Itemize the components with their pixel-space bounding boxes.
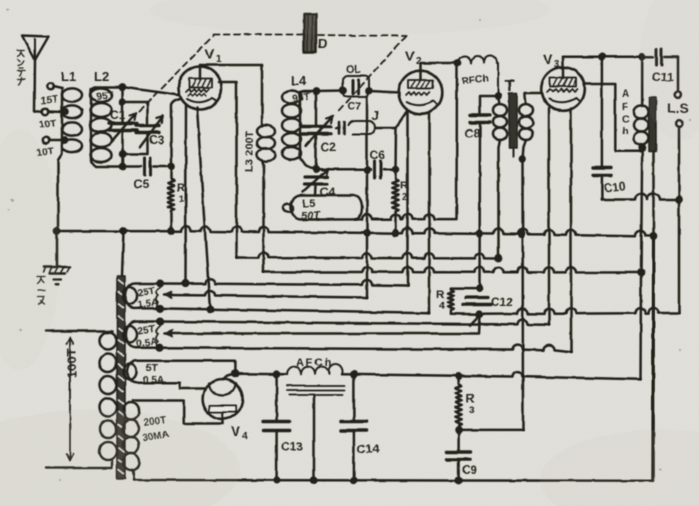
label 50T bbox=[301, 210, 320, 222]
label C11 bbox=[652, 70, 674, 84]
svg-text:F: F bbox=[622, 102, 628, 113]
resistor R4 bbox=[448, 288, 480, 314]
node R4 bottom bbox=[477, 312, 482, 317]
svg-text:15T: 15T bbox=[40, 94, 58, 107]
label T bbox=[505, 78, 515, 95]
svg-text:C3: C3 bbox=[149, 133, 165, 147]
grid wire L2 top to V1 bbox=[123, 87, 179, 95]
loudspeaker terminal 1 bbox=[675, 91, 682, 98]
V1 heater wire 1 bbox=[184, 105, 187, 284]
capacitor C13 bbox=[264, 374, 290, 480]
resistor R1 bbox=[168, 167, 174, 232]
svg-text:1: 1 bbox=[216, 54, 222, 65]
wire node to C5 bbox=[123, 165, 142, 168]
heater bus 3 bbox=[160, 308, 430, 313]
label R1 bbox=[177, 182, 185, 204]
transformer T primary bbox=[493, 96, 507, 259]
coil L4 bbox=[282, 91, 314, 170]
capacitor C14 bbox=[341, 374, 367, 480]
coil L1 bbox=[58, 88, 82, 231]
variable capacitor C3 bbox=[136, 126, 159, 133]
capacitor C11 bbox=[642, 49, 678, 91]
capacitor C9 bbox=[447, 430, 470, 481]
svg-text:L3 200T: L3 200T bbox=[244, 131, 256, 172]
power transformer core bbox=[117, 276, 125, 479]
node C3 bottom rail bbox=[120, 152, 125, 157]
svg-text:L5: L5 bbox=[302, 198, 315, 210]
bias branch to C12 bbox=[470, 315, 480, 325]
svg-text:R: R bbox=[436, 289, 444, 301]
wire C4 to L5 bbox=[314, 185, 317, 196]
wire J down to R2 bbox=[394, 128, 397, 170]
oscillator unit OL box bbox=[343, 76, 369, 97]
label R2 bbox=[400, 180, 408, 202]
svg-text:10T: 10T bbox=[38, 118, 56, 131]
label 0.5A (rect) bbox=[143, 375, 164, 386]
heater winding 25T 1.5A bbox=[123, 283, 160, 308]
rectifier tube V4 bbox=[203, 374, 243, 424]
capacitor C6 bbox=[375, 161, 381, 178]
wire L5 return bus bbox=[318, 64, 457, 220]
C2 arrow bbox=[306, 116, 333, 146]
svg-text:4: 4 bbox=[242, 431, 248, 442]
node bias lower / winding bbox=[157, 345, 163, 351]
label 25T bbox=[137, 286, 156, 299]
label R3 bbox=[466, 391, 475, 416]
node R2 top bbox=[393, 167, 398, 172]
svg-text:5T: 5T bbox=[146, 363, 158, 374]
svg-text:C4: C4 bbox=[320, 185, 336, 199]
svg-text:R: R bbox=[466, 391, 475, 405]
node L4 bottom bbox=[313, 167, 318, 172]
svg-text:3: 3 bbox=[554, 59, 560, 70]
node earth bus / R2 bbox=[393, 231, 398, 236]
wire node to OL unit bbox=[316, 89, 343, 92]
node C3 top rail bbox=[120, 100, 125, 105]
label 10T bbox=[38, 118, 56, 131]
node V2 plate / RFC / oscillator line bbox=[455, 60, 460, 65]
svg-text:100T: 100T bbox=[64, 348, 79, 378]
node bias bus / winding bbox=[157, 319, 163, 325]
resistor R3 bbox=[456, 376, 462, 430]
label C1 bbox=[110, 108, 126, 122]
node heater bus 1 / winding bbox=[157, 281, 163, 287]
svg-text:C7: C7 bbox=[347, 101, 361, 113]
label 5T bbox=[146, 363, 158, 374]
svg-text:J: J bbox=[372, 109, 379, 123]
node L4 top bbox=[313, 88, 318, 93]
svg-text:C10: C10 bbox=[603, 179, 627, 195]
node B+ bus / T primary bbox=[496, 256, 501, 261]
resistor R2 bbox=[392, 169, 398, 234]
wire C5 to R1 node bbox=[154, 165, 172, 168]
node earth bus / C8 line bbox=[477, 231, 482, 236]
label V2 bbox=[405, 48, 422, 67]
C3 arrow bbox=[140, 116, 163, 147]
coil L2 bbox=[91, 87, 123, 167]
svg-text:D: D bbox=[318, 36, 327, 51]
rectifier winding 5T 0.5A bbox=[124, 361, 161, 383]
plate supply bus bbox=[264, 267, 642, 273]
wire C6 row bbox=[316, 168, 371, 171]
label C5 bbox=[134, 177, 150, 191]
node heater bus 3 / winding bbox=[157, 306, 163, 312]
svg-text:V: V bbox=[205, 46, 215, 62]
label L1 bbox=[61, 69, 76, 84]
heater bus 1 bbox=[160, 279, 408, 286]
C4 arrow bbox=[303, 169, 328, 192]
node R3 bottom bbox=[456, 427, 461, 432]
svg-text:AFCh: AFCh bbox=[296, 357, 333, 369]
label C4 bbox=[320, 185, 336, 199]
HT winding 200T 30mA bbox=[123, 401, 223, 481]
label 95T bbox=[96, 90, 115, 103]
wire LS down right edge bbox=[678, 127, 681, 313]
antenna label (katakana) bbox=[17, 50, 25, 85]
bottom bus riser to earth bus bbox=[653, 236, 654, 481]
vacuum tube V3 bbox=[541, 57, 585, 111]
label 25T (bias) bbox=[137, 324, 156, 337]
more sections appended below bbox=[282, 48, 689, 481]
svg-text:C8: C8 bbox=[465, 126, 481, 140]
node earth bus / R1 bbox=[168, 228, 173, 233]
node OL left bbox=[340, 88, 345, 93]
label C3 bbox=[149, 133, 165, 147]
node heater bus 1 / V1 bbox=[183, 281, 189, 287]
node C13 bbox=[274, 372, 279, 377]
ground label (katakana) bbox=[37, 277, 45, 305]
C1 arrow bbox=[111, 113, 136, 142]
label L2 bbox=[94, 69, 109, 84]
svg-text:C13: C13 bbox=[281, 440, 303, 454]
wire node down to C2 bbox=[315, 91, 318, 125]
V2 heater wire 1 bbox=[406, 113, 409, 286]
grid condenser J bbox=[336, 121, 396, 134]
label C9 bbox=[462, 463, 478, 477]
svg-text:V: V bbox=[543, 51, 553, 67]
label R4 bbox=[436, 289, 445, 312]
choke frame wire bbox=[313, 395, 316, 481]
svg-text:A: A bbox=[622, 89, 629, 100]
V2 plate wire bbox=[421, 63, 459, 71]
svg-text:C: C bbox=[622, 114, 629, 125]
terminal 3 of L1 bbox=[43, 137, 68, 143]
filter choke AFCh bbox=[287, 364, 345, 394]
label C6 bbox=[370, 148, 386, 162]
heater bus 2 (centre tap) bbox=[164, 290, 367, 297]
label 200T bbox=[143, 415, 167, 429]
svg-text:C9: C9 bbox=[462, 463, 478, 477]
label 15T bbox=[40, 94, 58, 107]
node plate bus / output choke line bbox=[638, 270, 643, 275]
label C14 bbox=[357, 442, 379, 456]
label 10T (second) bbox=[36, 146, 54, 159]
label C13 bbox=[281, 440, 303, 454]
label AFCh (filter) bbox=[296, 357, 333, 369]
wire node to C8 bbox=[480, 96, 498, 113]
svg-text:0.5A: 0.5A bbox=[143, 375, 164, 386]
vacuum tube V2 bbox=[399, 71, 443, 115]
node OL right bbox=[366, 88, 371, 93]
node earth bus / L1 bbox=[54, 228, 59, 233]
coil L5 bbox=[283, 196, 362, 220]
label C12 bbox=[491, 295, 513, 309]
node choke bottom bbox=[640, 145, 645, 150]
svg-text:L1: L1 bbox=[61, 69, 76, 84]
RF choke RFCh bbox=[456, 56, 498, 96]
node plate line / C10 bbox=[599, 54, 604, 59]
loudspeaker terminal 2 bbox=[676, 120, 683, 127]
label C2 bbox=[321, 140, 337, 154]
bottom return bus bbox=[134, 479, 653, 482]
label L.S bbox=[667, 100, 689, 116]
dashed gang line horizontal through D bbox=[213, 35, 406, 37]
wire 5T top to rectifier output node bbox=[158, 361, 235, 374]
node on LS line bbox=[676, 197, 681, 202]
label C10 bbox=[603, 179, 627, 195]
dashed gang line D to C1 bbox=[139, 36, 213, 111]
label C8 bbox=[465, 126, 481, 140]
svg-text:V: V bbox=[405, 48, 415, 64]
V3 plate wire bbox=[563, 56, 642, 59]
node R4 top bbox=[477, 286, 482, 291]
capacitor C10 bbox=[593, 57, 611, 200]
antenna bbox=[22, 36, 49, 112]
label 30MA bbox=[142, 429, 170, 444]
svg-text:L4: L4 bbox=[291, 73, 307, 88]
transformer T secondary bbox=[519, 93, 542, 159]
wire choke bottom down to B+ bbox=[641, 147, 643, 379]
primary winding 100T bbox=[46, 331, 117, 468]
svg-text:C14: C14 bbox=[357, 442, 379, 456]
node RFC output bbox=[495, 93, 500, 98]
node bottom bus / C9 bbox=[456, 478, 461, 483]
V1 screen wire down to B+ bus bbox=[219, 82, 237, 258]
bias tap bus bbox=[160, 319, 549, 324]
bias lower wire bbox=[160, 345, 571, 353]
label 100T (vertical) bbox=[64, 348, 79, 378]
wire C8 down grounded line bbox=[478, 124, 481, 288]
bias winding 25T 0.5A bbox=[123, 322, 160, 348]
node earth bus / grid-return line bbox=[519, 232, 524, 237]
svg-text:C12: C12 bbox=[491, 295, 513, 309]
wire 5T bottom to V4 filament bbox=[160, 383, 206, 389]
svg-text:h: h bbox=[622, 126, 628, 137]
ground symbol bbox=[43, 231, 70, 284]
node rectifier output bbox=[233, 371, 239, 377]
capacitor C12 bbox=[463, 298, 491, 305]
label V1 bbox=[205, 46, 222, 65]
V1 heater wire 2 bbox=[197, 108, 210, 310]
node at C1 bottom bbox=[120, 164, 125, 169]
V2 heater wire 2 bbox=[428, 113, 431, 314]
wire C1 to bottom node bbox=[121, 132, 124, 167]
capacitor C8 bbox=[470, 115, 490, 123]
V3 screen wire bbox=[585, 84, 641, 151]
label C7 bbox=[347, 101, 361, 113]
trimmer C4 bbox=[305, 177, 327, 184]
label D bbox=[318, 36, 327, 51]
centre tap arrow bbox=[164, 292, 172, 299]
svg-text:C6: C6 bbox=[370, 148, 386, 162]
svg-text:4: 4 bbox=[439, 301, 445, 312]
node at R1 top bbox=[168, 164, 173, 169]
node R3 top bbox=[456, 374, 461, 379]
V1 plate wire to L3 bbox=[200, 64, 262, 67]
label V4 bbox=[231, 423, 248, 442]
vacuum tube V1 bbox=[179, 65, 222, 110]
svg-text:3: 3 bbox=[469, 405, 475, 416]
capacitor C5 bbox=[145, 158, 151, 175]
bias centre wire bbox=[164, 316, 480, 334]
node bottom bus / choke frame bbox=[311, 478, 316, 483]
output choke core bbox=[649, 97, 656, 151]
node bottom bus / C14 bbox=[351, 478, 356, 483]
wire C2 to bottom node bbox=[315, 135, 318, 169]
node heater bus 3 / V1 bbox=[207, 306, 213, 312]
wire OL to V2 grid bbox=[369, 91, 400, 93]
output choke AFCh bbox=[634, 57, 649, 148]
svg-text:L2: L2 bbox=[94, 69, 109, 84]
dial lamp D bbox=[304, 14, 316, 52]
svg-text:R: R bbox=[177, 182, 185, 194]
terminal 1 of L1 bbox=[47, 83, 62, 89]
wire L2 top to C1 bbox=[121, 87, 124, 121]
node C14 bbox=[351, 372, 356, 377]
wire choke to B+ bbox=[342, 372, 641, 380]
svg-text:T: T bbox=[505, 78, 515, 95]
cathode wire V1 to R1 node bbox=[171, 99, 181, 167]
svg-text:C2: C2 bbox=[321, 140, 337, 154]
node earth bus / OL bbox=[364, 230, 369, 235]
node earth bus / B- riser bbox=[651, 233, 656, 238]
svg-text:C5: C5 bbox=[134, 177, 150, 191]
wire C6 to node bbox=[384, 168, 396, 171]
label OL bbox=[346, 64, 362, 76]
label 95T bbox=[292, 91, 311, 105]
wire C10 bottom to LS line bbox=[602, 194, 679, 200]
earth bus bbox=[57, 226, 654, 236]
dashed gang line to C2 bbox=[336, 36, 406, 114]
terminal 2 of L1 bbox=[35, 108, 68, 114]
node at L2 top bbox=[120, 84, 125, 89]
long wire T secondary to R3 bottom bbox=[521, 159, 524, 430]
B+ filter line bbox=[235, 372, 287, 375]
wire C3 bottom rail bbox=[123, 134, 148, 154]
B+ bus (screen feed) bbox=[237, 253, 499, 259]
label J bbox=[372, 109, 379, 123]
svg-text:C1: C1 bbox=[110, 108, 126, 122]
svg-text:1: 1 bbox=[179, 194, 184, 204]
capacitor C7 inside OL bbox=[353, 80, 359, 94]
coil L3 bbox=[257, 65, 275, 272]
wire core right leg down to earth bbox=[652, 151, 655, 481]
label V3 bbox=[543, 51, 560, 70]
V3 heater wire 1 bbox=[548, 109, 551, 325]
svg-text:OL: OL bbox=[346, 64, 362, 76]
label 0.5A (bias) bbox=[136, 336, 158, 350]
label 1.5A bbox=[137, 297, 159, 311]
variable capacitor C1 bbox=[109, 124, 137, 131]
label L5 bbox=[302, 198, 315, 210]
node plate line / choke bbox=[640, 54, 645, 59]
label L4 bbox=[291, 73, 307, 88]
wire R3 bottom to grid line bbox=[459, 429, 523, 432]
svg-text:V: V bbox=[231, 423, 241, 439]
primary dimension arrows bbox=[67, 337, 74, 461]
node C6 row / OL line bbox=[365, 167, 370, 172]
node bottom bus / C13 bbox=[274, 478, 279, 483]
label L3 200T (vertical) bbox=[244, 131, 256, 172]
V3 heater wire 2 bbox=[570, 109, 573, 353]
wire OL down to earth bus bbox=[366, 97, 369, 298]
variable capacitor C2 bbox=[302, 127, 331, 135]
wire C3 top rail bbox=[123, 102, 148, 123]
label RFCh bbox=[461, 73, 489, 87]
label AFCh (vertical) bbox=[622, 89, 629, 137]
wire earth bus to core bbox=[122, 231, 124, 276]
bias centre arrow bbox=[164, 330, 172, 337]
back-bias line C12 to speaker bbox=[480, 308, 680, 314]
wire J to V2 cathode bbox=[396, 111, 407, 128]
node T secondary bottom bbox=[520, 156, 525, 161]
transformer T core bbox=[509, 93, 517, 157]
node earth bus / L2 bbox=[121, 228, 126, 233]
